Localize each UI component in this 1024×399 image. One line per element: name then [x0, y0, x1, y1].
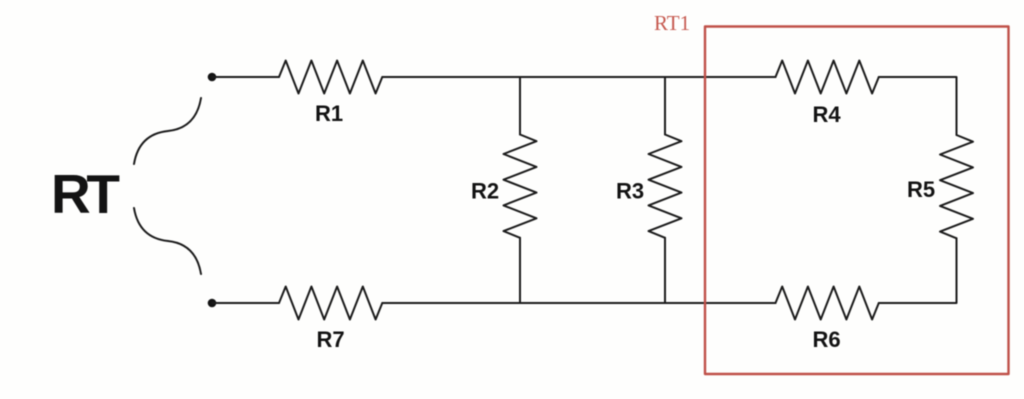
svg-text:R6: R6	[813, 327, 841, 352]
svg-text:R7: R7	[316, 327, 344, 352]
node top terminal dot	[208, 73, 217, 82]
resistor R1	[279, 61, 382, 94]
wire bottom-middle	[382, 302, 775, 304]
svg-text:R3: R3	[616, 179, 644, 204]
wire R3 branch top	[664, 77, 666, 135]
wire top-right corner	[879, 77, 957, 135]
resistor R7	[279, 287, 382, 320]
svg-text:R1: R1	[315, 101, 343, 126]
resistor R6	[776, 287, 879, 320]
node bottom terminal dot	[208, 299, 217, 308]
resistor R2	[504, 135, 537, 238]
brace lower curve	[134, 208, 201, 274]
svg-text:R2: R2	[471, 179, 499, 204]
wire R3 branch bottom	[664, 238, 666, 303]
resistor R4	[776, 61, 879, 94]
svg-text:RT1: RT1	[654, 11, 690, 35]
svg-text:RT: RT	[51, 163, 120, 225]
wire top-middle	[382, 76, 775, 78]
wire bottom-left	[212, 302, 279, 304]
svg-text:R5: R5	[907, 177, 935, 202]
wire top-left	[212, 76, 279, 78]
wire R2 branch top	[519, 77, 521, 135]
svg-text:R4: R4	[813, 102, 842, 127]
wire R2 branch bottom	[519, 238, 521, 303]
resistor R5	[940, 135, 973, 238]
brace upper curve	[134, 98, 201, 164]
resistor R3	[649, 135, 682, 238]
wire bottom-right corner	[879, 238, 957, 303]
box RT1 outline	[705, 27, 1009, 375]
